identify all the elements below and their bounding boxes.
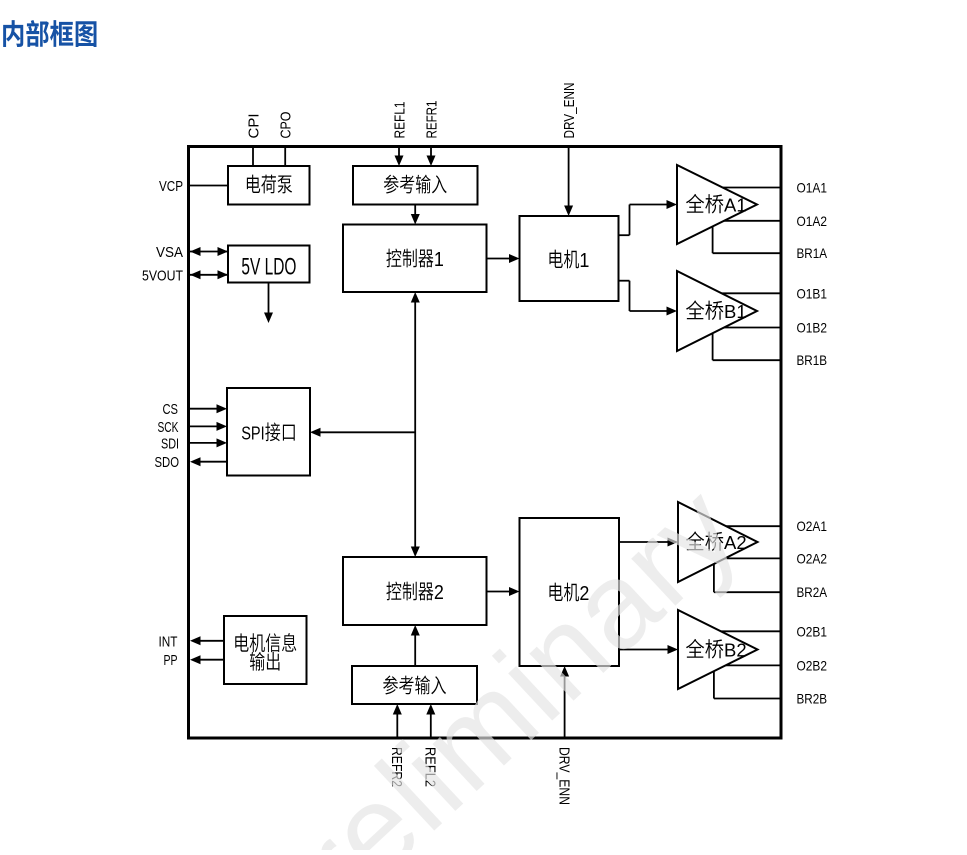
svg-text:SDI: SDI bbox=[161, 435, 179, 452]
svg-text:A1: A1 bbox=[724, 195, 747, 216]
svg-text:BR1B: BR1B bbox=[797, 352, 828, 368]
svg-text:O2A2: O2A2 bbox=[797, 550, 828, 566]
svg-text:VCP: VCP bbox=[159, 178, 183, 195]
svg-text:B2: B2 bbox=[724, 640, 747, 661]
svg-text:REFR1: REFR1 bbox=[423, 101, 440, 139]
svg-text:BR1A: BR1A bbox=[797, 245, 828, 261]
svg-text:CPO: CPO bbox=[278, 112, 295, 139]
svg-text:O2B1: O2B1 bbox=[797, 623, 828, 639]
svg-text:REFL1: REFL1 bbox=[391, 102, 408, 139]
svg-text:SCK: SCK bbox=[158, 419, 179, 436]
svg-text:PP: PP bbox=[164, 652, 178, 669]
svg-text:1: 1 bbox=[434, 249, 444, 271]
svg-text:O1A2: O1A2 bbox=[797, 213, 828, 229]
svg-text:2: 2 bbox=[434, 582, 444, 604]
svg-text:BR2A: BR2A bbox=[797, 584, 828, 600]
svg-text:BR2B: BR2B bbox=[797, 691, 828, 707]
svg-text:SDO: SDO bbox=[155, 454, 180, 471]
svg-text:INT: INT bbox=[159, 633, 178, 650]
svg-text:DRV_ENN: DRV_ENN bbox=[555, 747, 572, 805]
svg-text:CS: CS bbox=[163, 401, 179, 418]
svg-text:O1B1: O1B1 bbox=[797, 285, 828, 301]
svg-text:O2B2: O2B2 bbox=[797, 657, 828, 673]
svg-text:B1: B1 bbox=[724, 301, 747, 322]
svg-text:O2A1: O2A1 bbox=[797, 518, 828, 534]
svg-text:SPI: SPI bbox=[241, 423, 265, 444]
svg-text:CPI: CPI bbox=[245, 114, 262, 139]
svg-text:O1B2: O1B2 bbox=[797, 320, 828, 336]
svg-text:5V LDO: 5V LDO bbox=[241, 254, 296, 281]
svg-text:5VOUT: 5VOUT bbox=[142, 267, 183, 284]
svg-text:1: 1 bbox=[579, 250, 589, 272]
svg-text:VSA: VSA bbox=[156, 244, 183, 261]
svg-text:O1A1: O1A1 bbox=[797, 180, 828, 196]
svg-text:DRV_ENN: DRV_ENN bbox=[561, 83, 578, 139]
